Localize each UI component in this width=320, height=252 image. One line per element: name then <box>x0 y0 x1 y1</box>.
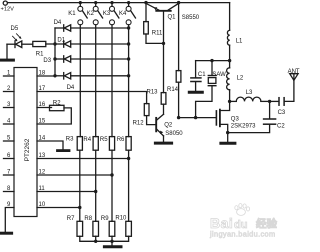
transistor Q2 S8050 <box>156 114 183 141</box>
wire: gate line to Q3 <box>177 116 216 119</box>
ground (for D5) <box>1 44 13 60</box>
svg-text:17: 17 <box>39 86 46 92</box>
svg-text:14: 14 <box>39 135 46 141</box>
svg-text:11: 11 <box>39 186 46 192</box>
pin 13 (to col4) <box>37 153 130 160</box>
svg-text:D5: D5 <box>11 26 19 32</box>
wire: +12V top rail <box>7 2 229 4</box>
diode D3 (third row) <box>43 56 128 64</box>
transistor Q1 S8550 <box>146 3 200 45</box>
capacitor C2 <box>228 101 286 132</box>
svg-text:13: 13 <box>39 153 46 159</box>
pin 9 (to ground) <box>5 202 14 232</box>
resistor R14 <box>167 3 181 118</box>
svg-text:L1: L1 <box>236 38 243 44</box>
svg-text:R7: R7 <box>67 216 75 222</box>
svg-text:15: 15 <box>39 118 46 124</box>
ground (Q3 source) <box>221 133 235 144</box>
svg-text:K2: K2 <box>87 11 95 17</box>
svg-text:R4: R4 <box>83 137 91 143</box>
inductor L2 <box>227 61 244 102</box>
pin 14 (to ground) <box>37 135 63 149</box>
op-amp U1 PT2262 encoder IC <box>14 68 37 217</box>
svg-text:K4: K4 <box>119 11 127 17</box>
svg-text:R6: R6 <box>117 137 125 143</box>
resistor R9 <box>101 216 115 237</box>
pin 3 <box>4 102 15 108</box>
pin 8 <box>4 186 15 192</box>
capacitor C1 <box>191 61 206 91</box>
pin 11 (to col2) <box>37 186 97 193</box>
pin 7 <box>4 169 15 175</box>
svg-text:S8050: S8050 <box>165 131 183 137</box>
node: rail junction for R11/Q1 emitter <box>144 1 147 4</box>
switch K3 <box>103 1 119 137</box>
svg-text:PT2262: PT2262 <box>24 138 31 161</box>
resistor R7 <box>67 216 83 237</box>
resistor R2 <box>37 101 71 125</box>
svg-text:K1: K1 <box>68 11 76 17</box>
diode D1 (second row) <box>55 37 129 47</box>
svg-text:D4: D4 <box>67 85 75 91</box>
svg-text:S8550: S8550 <box>182 15 200 21</box>
resistor R1 <box>33 41 55 57</box>
svg-text:R11: R11 <box>152 31 163 37</box>
wire: col4 lower segment <box>128 150 130 221</box>
svg-text:R1: R1 <box>36 51 44 57</box>
svg-text:16: 16 <box>39 102 46 108</box>
crystal SAW resonator <box>196 61 227 118</box>
ground (Q2 emitter) <box>155 142 171 145</box>
svg-text:Q1: Q1 <box>168 14 177 20</box>
svg-text:K3: K3 <box>103 11 111 17</box>
pin 4 <box>4 118 15 124</box>
pin 15 <box>39 118 46 124</box>
svg-text:12: 12 <box>39 169 46 175</box>
wire: col1 lower segment <box>79 150 81 221</box>
svg-text:C3: C3 <box>278 110 286 116</box>
antenna ANT <box>288 69 300 80</box>
svg-text:D3: D3 <box>43 58 51 64</box>
+12V terminal <box>1 1 15 12</box>
capacitor C3 <box>270 80 294 116</box>
svg-text:+12V: +12V <box>1 6 15 12</box>
resistor R4 <box>83 137 98 151</box>
diode D4 (bottom row, pin 18 line) <box>55 73 129 92</box>
resistor R3 <box>66 136 83 150</box>
pin 6 <box>4 153 15 159</box>
svg-text:R8: R8 <box>84 216 92 222</box>
svg-text:C2: C2 <box>277 124 285 130</box>
resistor R13 <box>147 43 166 114</box>
ground (bottom rail) <box>104 241 121 247</box>
pin 1 <box>4 70 15 76</box>
wire: bottom ground rail <box>80 236 129 243</box>
svg-text:C1: C1 <box>198 72 206 78</box>
pin 17 (Dout wire to R12) <box>37 86 147 104</box>
svg-text:jingyan.baidu.com: jingyan.baidu.com <box>209 230 276 239</box>
watermark Baidu jingyan <box>209 204 277 239</box>
svg-text:SAW: SAW <box>212 72 226 78</box>
svg-text:R13: R13 <box>147 89 159 95</box>
wire: col2 lower segment <box>95 150 97 221</box>
node: diode anode bus <box>53 28 56 78</box>
transistor Q3 2SK2973 MOSFET <box>216 101 256 134</box>
svg-text:R2: R2 <box>53 101 61 107</box>
pin 10 (to col1) <box>37 202 82 209</box>
pin 2 <box>4 86 15 92</box>
resistor R12 <box>133 104 156 127</box>
svg-text:Q2: Q2 <box>164 123 173 129</box>
pin 16 (osc, R2) <box>37 102 52 108</box>
svg-text:R14: R14 <box>167 87 179 93</box>
node: rail junction for Q1 collector / R14 <box>177 1 180 4</box>
svg-text:ANT: ANT <box>288 69 300 75</box>
svg-text:2SK2973: 2SK2973 <box>231 124 256 130</box>
wire: col3 lower segment <box>111 150 113 221</box>
pin 12 (to col3) <box>37 169 114 176</box>
resistor R11 <box>144 3 164 44</box>
inductor L3 <box>230 90 270 102</box>
resistor R6 <box>117 137 132 151</box>
node: antenna junction <box>268 100 271 103</box>
svg-text:R3: R3 <box>66 136 74 142</box>
svg-text:R12: R12 <box>133 121 145 127</box>
node: col4 junction dots on key rows <box>127 26 130 77</box>
pin 18 (Vcc wire to diode bus) <box>37 70 55 76</box>
svg-text:R9: R9 <box>101 216 109 222</box>
resistor R10 <box>115 215 131 236</box>
svg-text:D1: D1 <box>57 37 65 43</box>
svg-text:R10: R10 <box>115 215 127 221</box>
resistor R5 <box>100 137 115 151</box>
switch K2 <box>87 1 103 137</box>
svg-text:Q3: Q3 <box>231 117 240 123</box>
svg-text:L2: L2 <box>237 76 244 82</box>
svg-text:L3: L3 <box>246 90 253 96</box>
ground (pin 9) <box>1 232 12 235</box>
inductor L1 <box>227 3 243 61</box>
switch K1 <box>68 1 87 137</box>
ground (C1) <box>189 91 202 94</box>
resistor R8 <box>84 216 98 237</box>
wire: tank top rail <box>196 59 232 62</box>
ground (pin 14) <box>58 149 70 152</box>
svg-text:R5: R5 <box>100 137 108 143</box>
svg-text:10: 10 <box>39 202 46 208</box>
svg-text:经验: 经验 <box>256 217 277 230</box>
switch K4 <box>119 1 136 137</box>
svg-text:18: 18 <box>39 70 46 76</box>
svg-text:D4: D4 <box>54 20 62 26</box>
pin 5 <box>4 135 15 141</box>
diode D4 (top row) <box>54 20 129 31</box>
LED D5 <box>7 26 33 48</box>
node: drain junction <box>228 100 231 103</box>
